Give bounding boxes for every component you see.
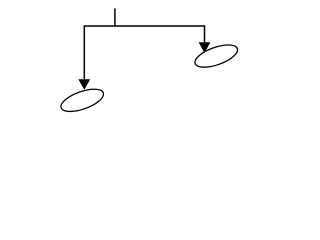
arrowhead: right arrow bbox=[199, 42, 211, 53]
arrowhead: left arrow bbox=[78, 79, 90, 90]
node: left loop ellipse bbox=[58, 85, 106, 116]
node: right loop ellipse bbox=[192, 40, 240, 71]
wire: right vertical drop bbox=[204, 25, 206, 43]
wire: horizontal bus bbox=[84, 25, 204, 27]
wire: top tick bbox=[114, 9, 116, 27]
wire: left vertical drop bbox=[83, 25, 85, 80]
